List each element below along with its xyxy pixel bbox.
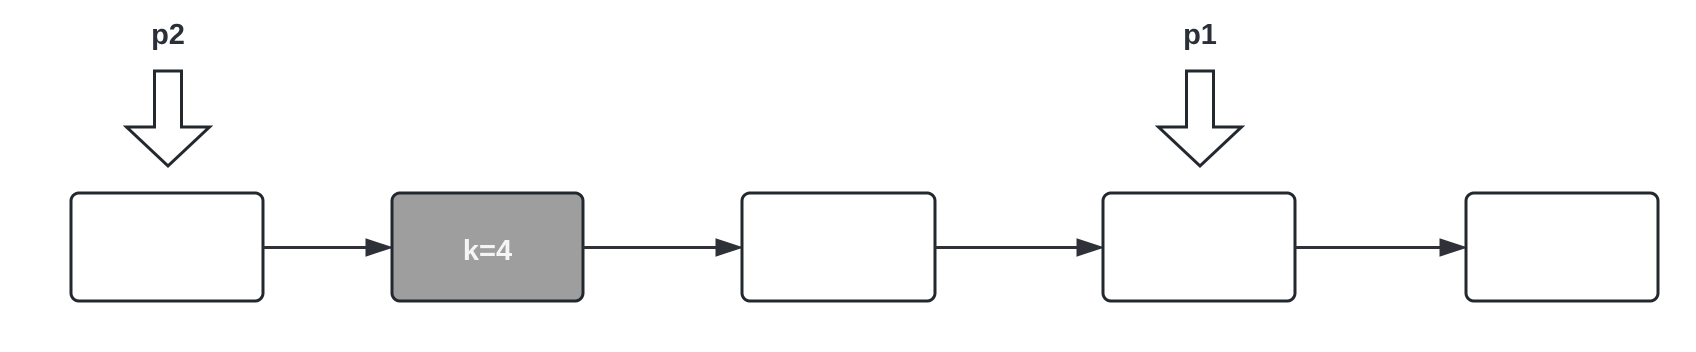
wire arrow 4 (box4 to box5): [1295, 239, 1466, 256]
wire arrow 2 (box2 to box3): [583, 239, 742, 256]
svg-text:p2: p2: [151, 19, 185, 51]
pointer block arrow p1: [1159, 71, 1242, 166]
pointer block arrow p2: [127, 71, 210, 166]
wire arrow 3 (box3 to box4): [935, 239, 1103, 256]
list node box 2 (gray, k=4): [392, 193, 583, 301]
wire arrow 1 (box1 to box2): [263, 239, 392, 256]
list node box 1: [71, 193, 263, 301]
svg-text:k=4: k=4: [463, 235, 512, 267]
list node box 4: [1103, 193, 1295, 301]
list node box 5: [1466, 193, 1658, 301]
svg-text:p1: p1: [1183, 19, 1217, 51]
list node box 3: [742, 193, 935, 301]
